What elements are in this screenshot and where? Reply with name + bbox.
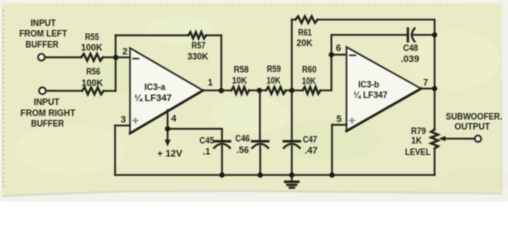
wire: R61 to right corner and down to C48 node: [318, 20, 435, 35]
node C47 ground rail dot: [289, 172, 294, 177]
wire: pin5 to riser: [332, 124, 347, 126]
minus sign pin6 IC3-b: [350, 54, 356, 56]
resistor R59: [266, 87, 286, 94]
label: R55 value: [81, 32, 103, 52]
resistor R55: [81, 54, 103, 61]
terminal: right input jack: [39, 87, 46, 94]
svg-text:¼ LF347: ¼ LF347: [354, 90, 388, 100]
label: R60 value: [302, 64, 317, 86]
wire: R55 to node pin2: [103, 56, 130, 58]
terminal: subwoofer output jack: [475, 136, 481, 142]
svg-text:330K: 330K: [187, 52, 208, 62]
plus sign pin5 IC3-b: [350, 118, 355, 123]
svg-text:6: 6: [336, 43, 341, 54]
wire: pin3 to ground riser: [115, 125, 130, 127]
svg-text:.039: .039: [401, 54, 420, 64]
resistor R60: [303, 87, 321, 94]
node IC3-a output junction dot: [219, 88, 224, 93]
node IC3-b output junction dot: [432, 86, 437, 91]
wire: R57 feedback top left segment: [116, 34, 189, 36]
label: C48 value: [401, 43, 420, 64]
label: R79 value LEVEL: [405, 126, 431, 157]
svg-text:.56: .56: [236, 145, 249, 155]
svg-text:10K: 10K: [302, 76, 316, 86]
wire: pin3 riser down to ground rail: [114, 126, 116, 176]
svg-text:SUBWOOFER.: SUBWOOFER.: [446, 111, 503, 121]
label: IC3-a designator: [134, 82, 172, 103]
resistor R56: [82, 87, 104, 94]
svg-text:LEVEL: LEVEL: [405, 147, 431, 157]
svg-text:INPUT: INPUT: [30, 18, 56, 28]
potentiometer R79 wiper arrow: [442, 138, 475, 140]
wire: pin5 riser to ground rail: [331, 125, 333, 175]
terminal: left input jack: [38, 54, 45, 61]
wire: output node down to R79: [434, 89, 436, 130]
wire: R58 to R59: [249, 89, 266, 91]
label: R58 value: [232, 64, 249, 85]
svg-text:R57: R57: [192, 40, 206, 50]
svg-text:R56: R56: [86, 67, 100, 77]
svg-text:100K: 100K: [82, 78, 104, 88]
svg-text:10K: 10K: [267, 76, 281, 86]
wire: IC3-a output to R58: [203, 89, 231, 91]
wire: R56 to vertical riser: [104, 90, 116, 92]
svg-text:BUFFER: BUFFER: [26, 39, 59, 49]
wire: ground rail: [115, 174, 435, 176]
label: SUBWOOFER OUTPUT: [446, 111, 503, 131]
minus sign pin2 IC3-a: [133, 58, 139, 60]
svg-text:R79: R79: [411, 126, 426, 136]
svg-text:+ 12V: + 12V: [157, 148, 182, 158]
wire: R57 to right vertical: [206, 34, 221, 36]
label: IC3-b designator: [354, 79, 388, 100]
capacitor C48: [408, 28, 435, 41]
node C45 ground rail dot: [219, 172, 224, 177]
svg-text:INPUT: INPUT: [34, 97, 60, 107]
node pin6 junction dot: [329, 52, 334, 57]
wire: feedback right vertical down to output node: [220, 35, 222, 90]
wire: C46 lead from main line down: [259, 90, 261, 141]
svg-text:C48: C48: [403, 43, 418, 53]
label: C45 value: [199, 135, 214, 156]
label: INPUT FROM LEFT BUFFER: [19, 18, 67, 49]
op-amp U2 IC3-b body: [347, 47, 422, 131]
svg-text:3: 3: [121, 114, 126, 125]
label: R57 value: [187, 40, 208, 61]
wire: R61 feedback left segment: [292, 19, 296, 21]
label: INPUT FROM RIGHT BUFFER: [20, 97, 75, 129]
node pin5 ground rail dot: [329, 172, 334, 177]
svg-text:OUTPUT: OUTPUT: [455, 122, 491, 132]
node C48/R61 junction dot: [432, 32, 437, 37]
svg-text:100K: 100K: [81, 42, 103, 52]
svg-text:1K: 1K: [411, 136, 422, 146]
svg-text:C47: C47: [303, 135, 317, 145]
svg-text:R59: R59: [267, 64, 281, 74]
svg-text:¼ LF347: ¼ LF347: [134, 93, 172, 103]
svg-text:20K: 20K: [297, 38, 313, 48]
node R58/R59/C46 junction dot: [257, 88, 262, 93]
resistor R57: [188, 32, 206, 38]
svg-text:FROM RIGHT: FROM RIGHT: [20, 108, 75, 118]
node C46 ground rail dot: [258, 172, 263, 177]
svg-text:C46: C46: [235, 134, 250, 144]
label: C47 value: [303, 135, 318, 156]
svg-text:7: 7: [423, 78, 428, 88]
svg-text:.47: .47: [305, 146, 318, 156]
svg-text:IC3-b: IC3-b: [358, 79, 379, 89]
svg-text:BUFFER: BUFFER: [31, 119, 64, 129]
capacitor C46: [252, 141, 268, 175]
wire: C48 node down to output node: [434, 35, 436, 89]
wire: right input to R56: [46, 90, 82, 92]
svg-text:R61: R61: [298, 27, 312, 37]
wire: R60 to pin6 riser: [320, 35, 331, 91]
node pin2 junction dot: [113, 55, 118, 60]
wire: C48 left segment from pin6 riser: [331, 34, 406, 36]
capacitor C47: [284, 141, 300, 175]
wire: R79 bottom to ground rail: [434, 149, 436, 176]
wire: vertical riser R56/pin2/R57: [115, 35, 117, 91]
svg-text:4: 4: [171, 114, 177, 125]
svg-text:R60: R60: [302, 64, 317, 74]
svg-text:C45: C45: [199, 135, 214, 145]
wire: pin6 stub: [331, 54, 346, 56]
resistor R61: [296, 16, 318, 23]
wire: C47/R61 vertical through main line: [291, 90, 293, 141]
wire: pin4 from triangle to +12V node: [167, 110, 169, 129]
wire: left input to R55: [45, 56, 81, 58]
label: R61 value: [297, 27, 313, 48]
svg-text:5: 5: [336, 114, 342, 125]
svg-text:R55: R55: [85, 32, 99, 42]
capacitor C45: [214, 141, 230, 175]
svg-text:1: 1: [208, 78, 213, 88]
label: C46 value: [235, 134, 250, 156]
node pin4 junction dot: [165, 126, 170, 131]
svg-text:FROM LEFT: FROM LEFT: [19, 29, 67, 39]
svg-text:R58: R58: [234, 64, 249, 74]
wire: pin4 node to C45: [168, 129, 222, 140]
plus sign pin3 IC3-a: [133, 118, 138, 123]
label: R59 value: [267, 64, 281, 86]
resistor R58: [231, 87, 249, 94]
label: R56 value: [82, 67, 104, 88]
svg-text:2: 2: [122, 46, 127, 57]
wire: R59 to R60: [286, 89, 303, 91]
wire: IC3-b output to node: [421, 88, 435, 90]
ground symbol: [285, 175, 298, 188]
node R59/R60/C47/R61 junction dot: [289, 88, 294, 93]
power +12V arrow: [167, 129, 169, 141]
svg-text:10K: 10K: [232, 75, 247, 85]
svg-text:.1: .1: [203, 146, 211, 156]
svg-text:IC3-a: IC3-a: [144, 82, 166, 92]
potentiometer R79 element: [431, 130, 438, 149]
op-amp U1 IC3-a body: [130, 48, 203, 133]
